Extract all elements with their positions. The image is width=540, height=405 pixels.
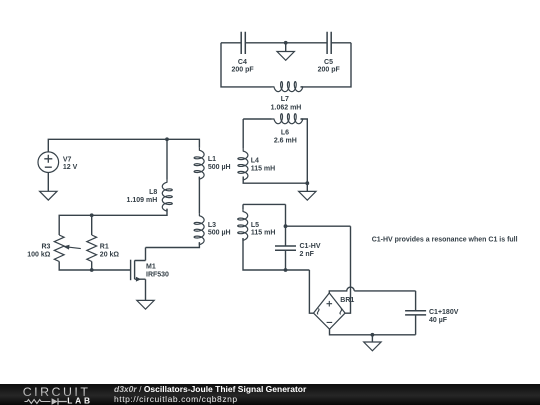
svg-text:500 µH: 500 µH: [208, 164, 231, 171]
svg-text:12 V: 12 V: [63, 164, 78, 171]
wire AC feed left: [309, 270, 313, 313]
svg-text:IRF530: IRF530: [146, 271, 169, 278]
wire V7 bottom: [47, 173, 49, 192]
svg-text:L5: L5: [251, 222, 259, 229]
svg-text:C4: C4: [238, 59, 247, 66]
wire top loop top-right: [331, 42, 351, 44]
svg-text:115 mH: 115 mH: [251, 229, 276, 236]
voltage source V7: [38, 152, 59, 173]
wire C1-HV bottom lead: [285, 250, 287, 270]
R3 wiper arrow: [68, 247, 81, 249]
ground M1: [145, 299, 147, 301]
svg-text:1.109 mH: 1.109 mH: [127, 197, 158, 204]
wire AC feed right: [286, 226, 351, 313]
svg-text:M1: M1: [146, 264, 156, 271]
node R1 top: [90, 213, 94, 217]
capacitor C5: [327, 32, 331, 54]
svg-text:200 pF: 200 pF: [232, 66, 255, 73]
svg-text:115 mH: 115 mH: [251, 165, 276, 172]
svg-text:40 µF: 40 µF: [429, 317, 448, 324]
wire between L1 and L3: [198, 177, 200, 214]
svg-text:R1: R1: [100, 244, 109, 251]
wire top loop top-left: [221, 42, 241, 44]
wire V7 top rail to L1: [48, 139, 199, 152]
wire L6 right side: [301, 119, 308, 183]
wire L5 bottom lead: [243, 238, 309, 270]
inductor L8: [162, 180, 172, 211]
svg-text:L6: L6: [281, 130, 289, 137]
svg-text:1.062 mH: 1.062 mH: [271, 105, 302, 112]
wire L8 top: [166, 139, 168, 180]
wire L3 to drain: [146, 242, 200, 260]
svg-text:V7: V7: [63, 156, 72, 163]
svg-text:20 kΩ: 20 kΩ: [100, 252, 120, 259]
svg-text:R3: R3: [41, 244, 50, 251]
svg-text:L7: L7: [281, 96, 289, 103]
node C1 ground junction: [371, 333, 375, 337]
inductor L3: [194, 213, 204, 244]
wire BR1 plus to C1 with hop: [329, 287, 415, 311]
node top ground junction: [284, 41, 288, 45]
svg-text:500 µH: 500 µH: [208, 230, 231, 237]
ground L4 loop: [306, 183, 308, 191]
wire L5 top lead: [243, 204, 286, 209]
wire L6 left lead: [243, 118, 271, 120]
svg-text:L3: L3: [208, 222, 216, 229]
capacitor C4: [241, 32, 245, 54]
node C1-HV bottom: [284, 268, 288, 272]
wire L4 bottom lead: [243, 177, 307, 184]
svg-text:C1-HV provides a resonance whe: C1-HV provides a resonance when C1 is fu…: [372, 236, 518, 243]
wire R3 bottom to gate: [59, 262, 130, 271]
CircuitLab logo: [18, 384, 102, 405]
wire top loop right side: [301, 43, 352, 87]
svg-text:LAB: LAB: [67, 396, 93, 405]
transistor M1: [130, 260, 132, 281]
inductor L1: [194, 148, 204, 179]
wire R1 bottom lead: [91, 262, 93, 271]
svg-text:C1-HV: C1-HV: [300, 243, 321, 250]
svg-text:L1: L1: [208, 156, 216, 163]
svg-text:2.6 mH: 2.6 mH: [274, 138, 297, 145]
capacitor C1-HV: [275, 246, 296, 250]
ground V7: [47, 190, 49, 192]
svg-text:L8: L8: [149, 189, 157, 196]
wire BR1 minus to C1 bottom: [330, 315, 416, 342]
inductor L5: [238, 209, 248, 240]
node C1-HV top: [284, 224, 288, 228]
resistor R3 (pot): [54, 235, 64, 261]
wire L8 bottom to R3 top: [59, 209, 167, 235]
svg-text:200 pF: 200 pF: [318, 66, 341, 73]
node R1 bottom: [90, 268, 94, 272]
resistor R1: [87, 235, 97, 261]
wire C1-HV top lead: [285, 204, 287, 246]
ground C1: [371, 341, 373, 343]
node L8 top junction: [165, 137, 169, 141]
bridge rectifier BR1: [314, 293, 346, 329]
wire R1 top lead: [91, 215, 93, 235]
svg-text:BR1: BR1: [340, 297, 354, 304]
inductor L7: [272, 82, 303, 92]
svg-text:100 kΩ: 100 kΩ: [27, 252, 51, 259]
svg-text:L4: L4: [251, 158, 259, 165]
wire top loop top-middle: [245, 42, 327, 44]
inductor L4: [238, 149, 248, 180]
inductor L6: [272, 114, 303, 124]
ground top: [285, 43, 287, 52]
svg-text:C5: C5: [324, 59, 333, 66]
wire L4 top lead: [242, 119, 244, 149]
wire top loop left side: [221, 43, 272, 87]
capacitor C1: [405, 311, 426, 315]
svg-text:2 nF: 2 nF: [300, 251, 315, 258]
svg-text:C1+180V: C1+180V: [429, 309, 459, 316]
node L4 loop ground junction: [305, 181, 309, 185]
